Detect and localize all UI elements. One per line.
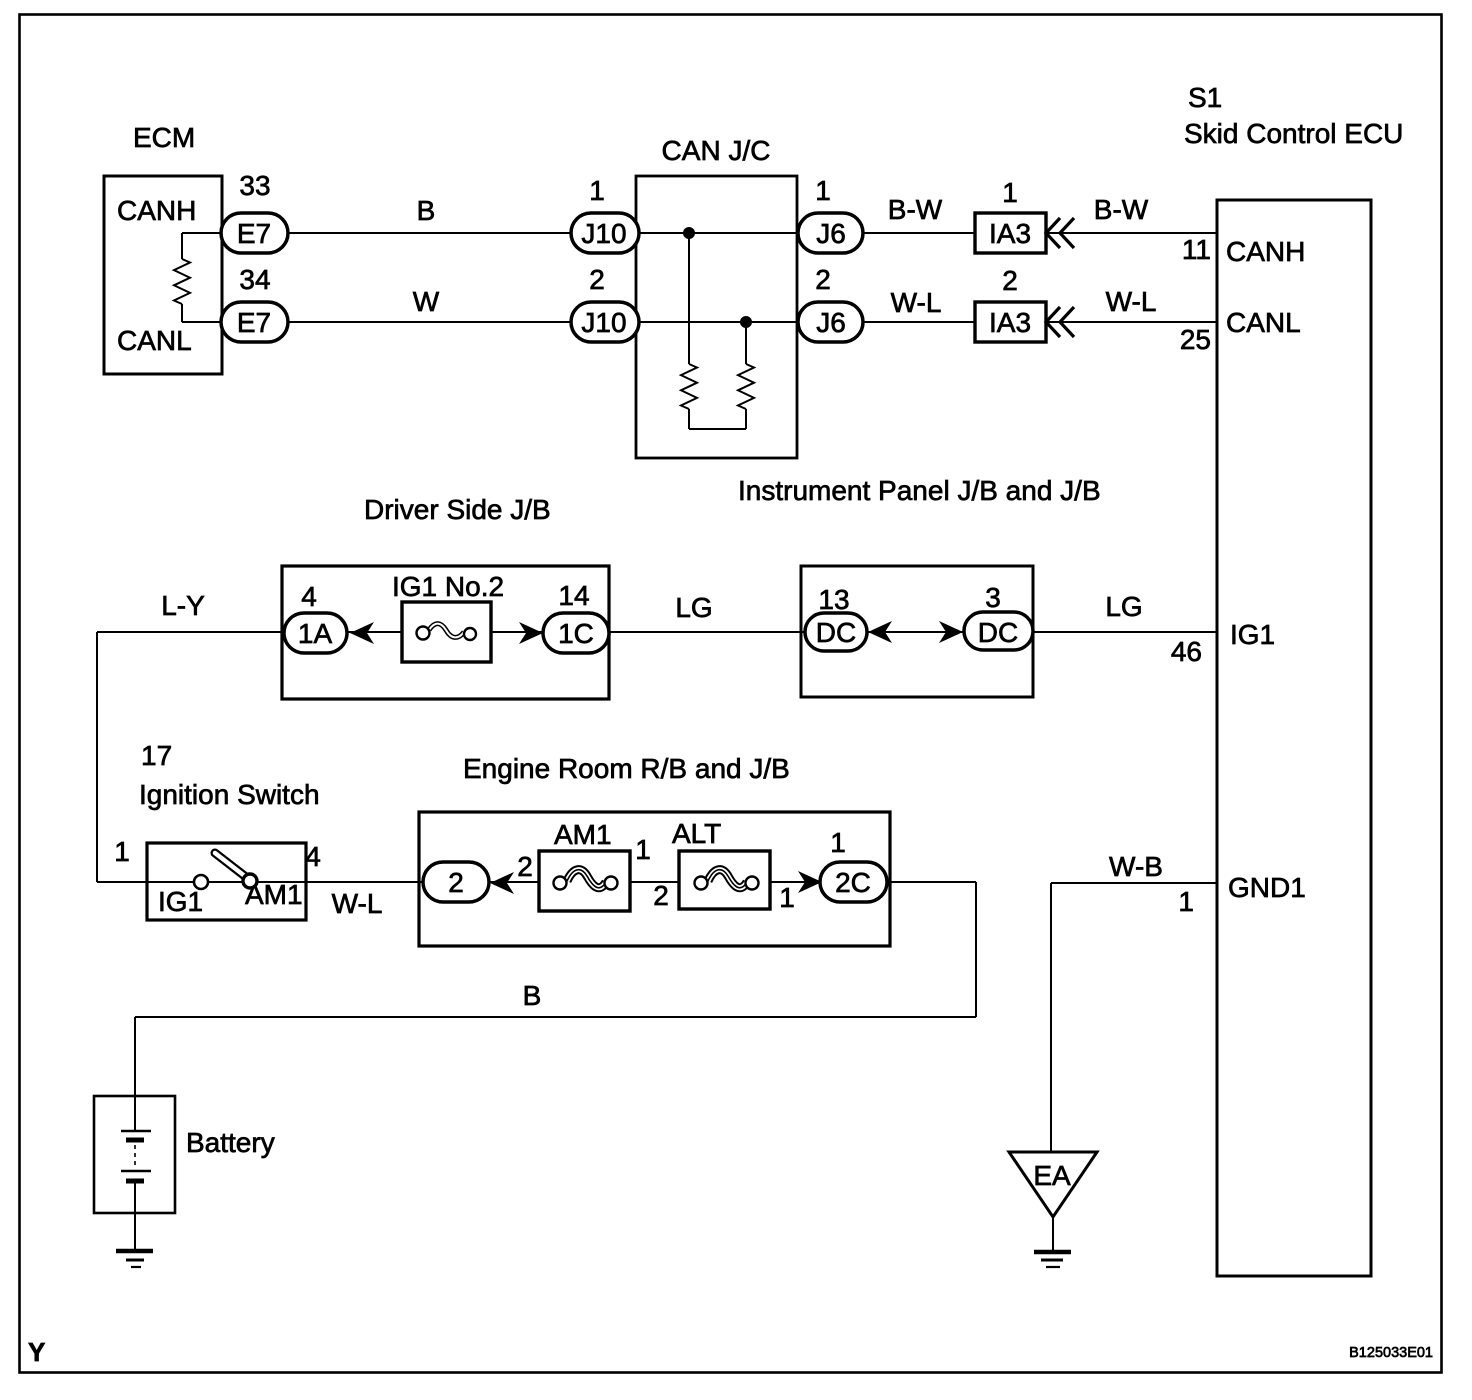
svg-text:LG: LG xyxy=(675,592,712,623)
switch lever xyxy=(215,853,246,877)
battery box xyxy=(94,1096,175,1213)
Driver Side J/B box xyxy=(282,566,609,699)
connector J10 pin 1 xyxy=(571,213,639,253)
svg-text:J6: J6 xyxy=(816,307,846,338)
svg-text:Engine Room R/B and J/B: Engine Room R/B and J/B xyxy=(463,753,790,784)
svg-text:2C: 2C xyxy=(835,867,871,898)
chevron arrows IA3 row 1 xyxy=(1046,218,1074,248)
svg-text:IA3: IA3 xyxy=(989,218,1031,249)
Skid Control ECU box U-S1 xyxy=(1217,200,1371,1276)
connector 2 xyxy=(423,862,489,902)
svg-text:IG1: IG1 xyxy=(1230,619,1275,650)
connector 1A xyxy=(284,613,347,653)
Instrument Panel J/B box xyxy=(801,566,1033,697)
svg-text:B125033E01: B125033E01 xyxy=(1349,1345,1433,1361)
svg-text:B: B xyxy=(417,195,436,226)
arrow into connector 2 xyxy=(490,872,514,894)
svg-text:GND1: GND1 xyxy=(1228,872,1306,903)
connector J6 pin 1 xyxy=(798,213,863,253)
svg-text:S1: S1 xyxy=(1188,82,1222,113)
svg-text:1: 1 xyxy=(635,834,651,865)
svg-text:2: 2 xyxy=(815,264,831,295)
svg-text:B-W: B-W xyxy=(1094,194,1149,225)
svg-text:1: 1 xyxy=(114,836,130,867)
connector DC pin 3 xyxy=(964,612,1033,650)
svg-text:J6: J6 xyxy=(816,218,846,249)
terminating resistor inside ECM xyxy=(174,233,222,322)
CAN J/C box xyxy=(636,176,797,458)
svg-text:3: 3 xyxy=(985,582,1001,613)
svg-text:4: 4 xyxy=(305,841,321,872)
svg-text:1: 1 xyxy=(830,827,846,858)
svg-text:L-Y: L-Y xyxy=(161,590,205,621)
svg-text:EA: EA xyxy=(1033,1160,1071,1191)
wire joining resistors xyxy=(689,428,746,430)
connector J10 pin 2 xyxy=(571,302,639,342)
connector 1C xyxy=(543,613,609,653)
wire W: ECM E7-34 to CAN J/C J10-2 and across to J6-2 xyxy=(288,321,863,323)
connector J6 pin 2 xyxy=(798,302,863,342)
svg-text:Instrument Panel J/B and J/B: Instrument Panel J/B and J/B xyxy=(738,475,1101,506)
wire down to battery xyxy=(134,1017,136,1096)
svg-text:J10: J10 xyxy=(581,218,626,249)
connector IA3 row 1 xyxy=(975,213,1046,253)
svg-text:E7: E7 xyxy=(237,307,271,338)
ground symbol EA xyxy=(1034,1252,1071,1267)
svg-text:33: 33 xyxy=(239,170,270,201)
svg-text:W-L: W-L xyxy=(1106,286,1157,317)
wire L-Y vertical drop xyxy=(96,632,98,882)
svg-text:2: 2 xyxy=(448,867,464,898)
svg-text:46: 46 xyxy=(1171,636,1202,667)
battery cells xyxy=(121,1096,151,1249)
svg-text:25: 25 xyxy=(1180,324,1211,355)
terminating resistor 1 in CAN J/C xyxy=(681,233,697,429)
wire B-W: J6-1 to IA3-1 xyxy=(863,232,975,234)
junction node on CANL wire xyxy=(740,316,752,328)
svg-text:IG1: IG1 xyxy=(158,886,203,917)
svg-text:B: B xyxy=(523,980,542,1011)
terminating resistor 2 in CAN J/C xyxy=(738,322,754,429)
switch contact circle xyxy=(194,875,208,889)
svg-text:13: 13 xyxy=(818,584,849,615)
svg-text:2: 2 xyxy=(517,851,533,882)
svg-text:ECM: ECM xyxy=(133,122,195,153)
arrow into 1A xyxy=(350,622,374,644)
connector DC pin 13 xyxy=(805,613,867,651)
fuse AM1 xyxy=(539,851,630,911)
svg-text:Battery: Battery xyxy=(186,1127,275,1158)
svg-text:IA3: IA3 xyxy=(989,307,1031,338)
svg-text:1: 1 xyxy=(779,882,795,913)
wire B: ECM E7-33 to CAN J/C J10-1 and across to J6-1 xyxy=(288,232,863,234)
ignition switch box xyxy=(147,843,306,920)
arrow into 2C xyxy=(798,871,822,893)
wire W-B: corner to ECU pin GND1 xyxy=(1051,882,1217,884)
svg-text:ALT: ALT xyxy=(672,818,721,849)
svg-text:4: 4 xyxy=(301,581,317,612)
wire W-L: IA3-2 to ECU pin 25 xyxy=(1046,321,1217,323)
svg-text:DC: DC xyxy=(816,617,856,648)
svg-text:W-L: W-L xyxy=(332,888,383,919)
svg-text:CAN J/C: CAN J/C xyxy=(662,135,771,166)
svg-text:CANL: CANL xyxy=(117,325,192,356)
connector 2C xyxy=(820,862,887,902)
wire L-Y horizontal into 1A xyxy=(97,631,284,633)
svg-text:1: 1 xyxy=(589,175,605,206)
Engine Room R/B and J/B box xyxy=(419,812,890,946)
svg-text:1: 1 xyxy=(1178,886,1194,917)
svg-text:34: 34 xyxy=(239,264,270,295)
svg-text:2: 2 xyxy=(1002,265,1018,296)
wire from vertical to ignition switch xyxy=(97,881,147,883)
ground EA triangle xyxy=(1009,1152,1097,1217)
svg-text:17: 17 xyxy=(141,740,172,771)
svg-text:CANH: CANH xyxy=(117,195,196,226)
wire LG row through Driver Side J/B and to DC box and ECU pin 46 xyxy=(284,631,1217,633)
fuse IG1 No.2 xyxy=(402,602,491,662)
svg-text:W: W xyxy=(413,286,440,317)
svg-text:2: 2 xyxy=(653,880,669,911)
connector IA3 row 2 xyxy=(975,302,1046,342)
svg-text:B-W: B-W xyxy=(888,194,943,225)
svg-text:1C: 1C xyxy=(558,618,594,649)
wire W-L ignition row through engine room boxes xyxy=(147,881,890,883)
svg-text:Driver Side J/B: Driver Side J/B xyxy=(364,494,551,525)
svg-text:1A: 1A xyxy=(298,618,333,649)
svg-text:DC: DC xyxy=(978,617,1018,648)
arrow into DC 3 xyxy=(939,621,963,643)
fusible link ALT xyxy=(679,851,770,909)
svg-text:CANH: CANH xyxy=(1226,236,1305,267)
svg-text:1: 1 xyxy=(815,175,831,206)
svg-text:Y: Y xyxy=(28,1337,45,1367)
junction node on CANH wire xyxy=(683,227,695,239)
svg-text:Skid Control ECU: Skid Control ECU xyxy=(1184,118,1403,149)
wire W-B vertical down to EA xyxy=(1050,883,1052,1153)
wire W-L: J6-2 to IA3-2 xyxy=(863,321,975,323)
wire B-W: IA3-1 to ECU pin 11 xyxy=(1046,232,1217,234)
switch pivot circle xyxy=(243,874,257,888)
wire 2C to corner xyxy=(890,881,976,883)
ECM box xyxy=(104,176,222,374)
svg-text:CANL: CANL xyxy=(1226,307,1301,338)
chevron arrows IA3 row 2 xyxy=(1046,307,1074,337)
svg-text:J10: J10 xyxy=(581,307,626,338)
svg-text:2: 2 xyxy=(589,264,605,295)
wire B horizontal line xyxy=(135,1016,976,1018)
svg-text:IG1 No.2: IG1 No.2 xyxy=(392,571,504,602)
connector E7 pin 34 xyxy=(221,302,288,342)
svg-text:1: 1 xyxy=(1002,177,1018,208)
wire EA to ground xyxy=(1052,1217,1054,1250)
svg-text:W-B: W-B xyxy=(1109,851,1163,882)
wire corner down to B line xyxy=(975,882,977,1017)
connector E7 pin 33 xyxy=(221,213,288,253)
ground symbol battery xyxy=(116,1251,153,1267)
svg-text:11: 11 xyxy=(1182,234,1211,265)
svg-text:W-L: W-L xyxy=(891,287,942,318)
svg-text:Ignition Switch: Ignition Switch xyxy=(139,779,320,810)
arrow into DC 13 xyxy=(868,621,892,643)
svg-text:LG: LG xyxy=(1105,591,1142,622)
svg-text:AM1: AM1 xyxy=(554,819,612,850)
svg-text:E7: E7 xyxy=(237,218,271,249)
arrow into 1C xyxy=(519,622,543,644)
svg-text:14: 14 xyxy=(558,580,589,611)
